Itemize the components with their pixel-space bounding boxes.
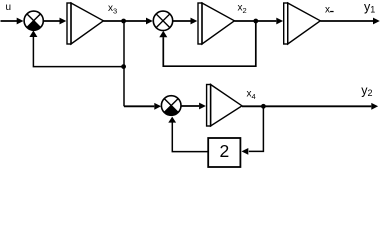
arrowhead output y2 [371,103,378,110]
arrowhead into S3 [154,103,161,110]
wire vertical from x3 node down to lower row [123,21,125,106]
wire block G to S3 bottom [172,122,208,151]
arrowhead output y1 [373,18,380,25]
arrowhead into amp4 [199,103,206,110]
svg-text:u: u [6,2,12,13]
amplifier/integrator block T3 [284,3,321,44]
wire amp2 to amp3 [234,20,276,22]
wire S3 to amp4 [181,105,199,107]
wire amp1 to summer S2 [103,20,146,22]
wire S2 to amp2 [173,20,191,22]
arrowhead left into block G [242,148,249,155]
amplifier/integrator block T4 [207,85,242,127]
wire feedback loop S1 (horizontal + vertical up) [33,37,124,67]
arrowhead up into S3 bottom [168,117,176,123]
wire input u [1,20,18,22]
svg-text:2: 2 [220,141,230,161]
wire into summer S3 [124,105,154,107]
amplifier/integrator block T2 [198,3,234,44]
junction dot D4 (x4 node) [261,104,266,109]
svg-text:x: x [325,5,330,16]
wire S1 to amp1 [43,20,59,22]
arrowhead into summer S1 [17,18,24,25]
arrowhead up into S1 bottom [29,30,37,37]
junction dot D1 (x3 node) [121,19,126,24]
summing junction S2 [153,11,172,30]
arrowhead into amp2 [191,18,198,25]
arrowhead into amp3 [276,18,283,25]
wire amp3 to output y1 [320,20,373,22]
junction dot D2 [121,64,126,69]
arrowhead into amp1 [60,18,67,25]
gain block G value 2 [208,138,240,167]
wire from y2 node down into block G [249,106,264,151]
wire feedback loop S2 (down, left, up) [163,21,256,66]
summing junction S3 [161,96,181,116]
arrowhead up into S2 bottom [159,31,167,38]
amplifier/integrator block T1 [67,3,103,44]
arrowhead into summer S2 [146,18,153,25]
wire amp4 to output y2 [242,105,371,107]
junction dot D3 (x2 node) [253,19,258,24]
summing junction S1 [24,11,43,30]
